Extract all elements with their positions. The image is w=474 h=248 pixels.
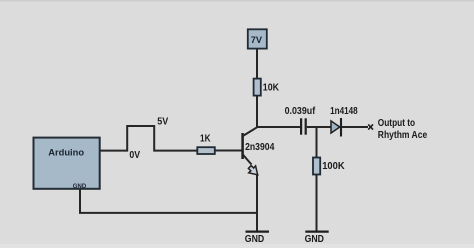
svg-text:GND: GND — [73, 184, 87, 190]
Arduino block U1 — [34, 138, 100, 191]
svg-text:0V: 0V — [129, 150, 140, 161]
emitter lead — [243, 155, 252, 165]
wire: 100K resistor to ground — [316, 175, 318, 232]
wire: capacitor to diode — [307, 126, 331, 128]
diode D1 1n4148 — [330, 106, 358, 136]
svg-text:100K: 100K — [322, 161, 345, 172]
svg-text:Arduino: Arduino — [48, 147, 84, 158]
wire: emitter to ground rail — [256, 174, 258, 232]
emitter arrow — [248, 166, 257, 175]
capacitor C1 0.039uf — [285, 106, 316, 135]
svg-text:7V: 7V — [251, 35, 263, 45]
ground symbol GND (emitter) — [245, 232, 269, 245]
wire: 7V box to 10K resistor — [256, 49, 258, 80]
svg-text:5V: 5V — [157, 116, 168, 127]
svg-text:Output to: Output to — [378, 118, 415, 129]
resistor 100K — [313, 158, 345, 175]
wire: Arduino pin through 5V bridge to 1K resistor — [100, 126, 198, 151]
svg-text:Rhythm Ace: Rhythm Ace — [378, 130, 428, 141]
svg-text:GND: GND — [245, 234, 264, 245]
wire: diode to output x terminal — [342, 126, 369, 128]
collector lead — [243, 127, 257, 136]
power source 7V box — [248, 29, 267, 48]
wire: collector node to capacitor — [256, 126, 300, 128]
svg-text:0.039uf: 0.039uf — [285, 106, 316, 117]
svg-text:2n3904: 2n3904 — [245, 142, 275, 153]
resistor 1K — [197, 133, 215, 154]
transistor Q1 2n3904 — [243, 127, 275, 175]
svg-text:GND: GND — [305, 234, 324, 245]
output terminal x — [368, 124, 373, 129]
svg-text:1K: 1K — [200, 133, 211, 144]
svg-text:10K: 10K — [263, 83, 280, 94]
base bar — [241, 133, 244, 159]
wire: 1K resistor to transistor base — [215, 150, 243, 152]
resistor 10K — [254, 79, 280, 96]
ground symbol GND (100K) — [305, 232, 329, 245]
wire: Arduino GND pin down and across to ground node — [80, 189, 257, 213]
wire: junction node to 100K resistor — [316, 127, 318, 158]
wire: 10K resistor to collector node — [256, 96, 258, 128]
label: Output to Rhythm Ace — [378, 118, 428, 141]
svg-text:1n4148: 1n4148 — [330, 106, 358, 117]
